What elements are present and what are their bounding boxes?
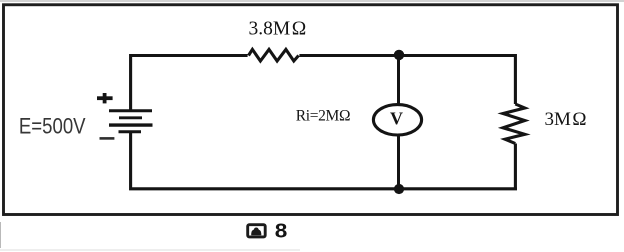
minus sign: [100, 137, 115, 140]
wire voltmeter bottom: [397, 136, 400, 189]
wire battery to bottom: [131, 132, 517, 189]
svg-text:Ri=2MΩ: Ri=2MΩ: [296, 108, 350, 125]
node dot bottom: [394, 184, 404, 194]
svg-text:8: 8: [275, 220, 288, 242]
svg-text:3MΩ: 3MΩ: [545, 109, 587, 130]
wire top right: [299, 56, 515, 105]
wire voltmeter top: [397, 55, 400, 104]
wire right lower: [514, 144, 517, 189]
node dot top: [394, 50, 404, 60]
caption picture icon: [248, 225, 266, 237]
bottom gray edge line: [0, 249, 300, 251]
battery B1 plate short upper: [119, 116, 142, 119]
plus sign: [97, 93, 113, 103]
svg-text:E=500V: E=500V: [19, 115, 86, 139]
resistor R2 3M: [503, 104, 525, 144]
svg-text:3.8MΩ: 3.8MΩ: [249, 19, 307, 40]
battery B1 plate long top: [109, 109, 152, 112]
voltmeter U1: [373, 105, 421, 135]
wire top left: [131, 56, 248, 111]
battery B1 plate short bottom: [119, 130, 142, 133]
svg-text:V: V: [390, 108, 403, 128]
battery B1 plate long lower: [109, 123, 153, 126]
top gray edge line: [0, 0, 624, 2]
left bottom gray edge: [0, 222, 2, 248]
resistor R1 3.8M: [249, 49, 299, 61]
